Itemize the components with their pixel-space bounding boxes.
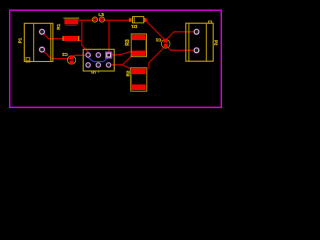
wire Y branch to R2 top pad xyxy=(122,65,131,69)
wire R1 lower pad right stub xyxy=(78,40,82,42)
svg-text:R1: R1 xyxy=(56,23,61,29)
resistor R1 xyxy=(63,18,80,41)
svg-text:C1: C1 xyxy=(155,38,161,43)
svg-text:P1: P1 xyxy=(18,37,23,43)
wire C1 pad2 to P2 pad2 xyxy=(167,46,194,50)
inductor L1 xyxy=(92,17,104,22)
wire R3 right side vertical xyxy=(145,38,147,53)
wire branch down to U1 square pad xyxy=(108,20,110,53)
silk tick near U1 xyxy=(98,71,100,72)
U1 blue bottom-layer wire xyxy=(88,57,109,61)
wire R2 left side vertical xyxy=(130,75,132,85)
capacitor C1 xyxy=(161,39,170,49)
svg-text:R2: R2 xyxy=(126,70,131,76)
board outline (dimension layer) xyxy=(10,10,222,107)
wire U1 pad6 to junction Y xyxy=(112,64,123,66)
capacitor C2 xyxy=(67,55,75,64)
svg-text:D1: D1 xyxy=(131,24,137,29)
wire C1 pad2 to R2 top pad xyxy=(149,47,165,69)
wire C1 pad1 to P2 pad1 xyxy=(166,32,194,40)
wire P1 pad1 to R1 lower pad xyxy=(42,32,65,39)
U1 pad 1 xyxy=(85,52,91,58)
U1 pad 6 xyxy=(106,62,112,68)
P1 pad 2 xyxy=(39,46,46,53)
svg-text:P2: P2 xyxy=(214,40,219,46)
wire P1 pad2 to C2 pad1 xyxy=(42,50,71,59)
resistor R2 xyxy=(131,68,147,91)
P2 pad 2 xyxy=(193,47,200,54)
U1 pad 2 xyxy=(95,52,101,58)
wire L1 pad2 to D1 anode xyxy=(102,19,129,21)
svg-text:U1: U1 xyxy=(90,70,96,75)
wire Y branch to R3 bottom pad xyxy=(122,56,132,65)
U1 pad 5 xyxy=(95,62,101,68)
resistor R3 xyxy=(131,34,146,57)
connector P1 xyxy=(24,23,53,62)
svg-text:R3: R3 xyxy=(125,39,131,46)
U1 pad 3 (square pin) xyxy=(105,51,112,58)
svg-text:C2: C2 xyxy=(62,52,68,57)
diode D1 xyxy=(129,17,148,23)
IC U1 xyxy=(83,49,114,71)
wire junction down from y20 to R1 lower pad right xyxy=(82,20,89,53)
wire D1 cathode to C1 pad1 xyxy=(146,21,164,39)
silk tick near L1 xyxy=(103,13,105,15)
connector P2 xyxy=(186,21,213,61)
wire C2 pad1 to U1 pad1 xyxy=(72,55,88,57)
P2 pad 1 xyxy=(193,29,200,36)
P1 pad 1 xyxy=(39,29,46,36)
wire R1 top pad to L1 pad1 xyxy=(78,19,95,21)
U1 pad 4 xyxy=(85,62,91,68)
wire U1 square pad to R3 bottom pad xyxy=(112,51,133,55)
